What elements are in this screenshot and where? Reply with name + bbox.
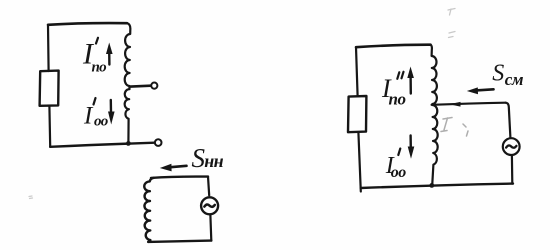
- svg-text:оо: оо: [94, 114, 108, 130]
- wire bottom circuit 2: [148, 241, 211, 242]
- inductor winding circuit 1: [125, 23, 131, 143]
- smudge mark top: [448, 9, 455, 38]
- label I'oo circuit 3: [385, 149, 406, 181]
- wire top edge circuit 3: [356, 45, 431, 48]
- wire right upper circuit 2: [208, 177, 209, 196]
- arrowhead on tap wire circuit 3: [449, 102, 460, 107]
- junction dot circuit 1 bottom: [126, 141, 131, 146]
- label I"po circuit 3: [381, 72, 405, 109]
- source circle circuit 2: [201, 197, 218, 214]
- wire left upper circuit 3: [356, 47, 358, 96]
- inductor winding circuit 3: [431, 45, 438, 186]
- resistor circuit 1: [40, 71, 59, 106]
- label Snn circuit 2: [192, 143, 224, 173]
- terminal circle bottom circuit 1: [155, 139, 162, 146]
- label I'oo circuit 1: [83, 98, 108, 130]
- svg-text:по: по: [92, 60, 107, 76]
- wire bottom circuit 1: [50, 143, 154, 147]
- svg-text:по: по: [389, 89, 406, 108]
- erased label Ig circuit 3: [441, 118, 468, 137]
- arrow Scm circuit 3: [467, 87, 494, 94]
- arrow down I'oo circuit 1: [108, 100, 115, 125]
- svg-text:нн: нн: [204, 151, 223, 171]
- arrow up I'no circuit 1: [106, 43, 113, 65]
- arrow Snn circuit 2: [160, 164, 187, 172]
- source circle circuit 3: [503, 138, 520, 155]
- svg-text:оо: оо: [391, 164, 406, 181]
- wire left upper circuit 1: [47, 25, 50, 71]
- label Scm circuit 3: [492, 60, 524, 89]
- label I'no circuit 1: [82, 38, 106, 76]
- terminal circle tap circuit 1: [151, 83, 157, 89]
- smudge mark left: [29, 196, 33, 199]
- inductor winding circuit 2: [144, 178, 154, 242]
- wire right lower circuit 2: [209, 215, 212, 240]
- wire top edge circuit 1: [48, 23, 127, 25]
- arrow up I"po circuit 3: [407, 67, 414, 94]
- wire right upper circuit 3: [506, 103, 511, 138]
- wire tap circuit 1: [131, 84, 151, 88]
- svg-text:S: S: [492, 60, 504, 86]
- wire tap circuit 3: [432, 103, 506, 105]
- junction dot circuit 3 bottom: [429, 183, 434, 188]
- arrow down I'oo circuit 3: [408, 136, 415, 159]
- resistor circuit 3: [348, 96, 366, 132]
- wire right lower circuit 3: [511, 156, 514, 184]
- svg-text:см: см: [505, 70, 524, 89]
- wire bottom circuit 3: [361, 184, 513, 188]
- wire left lower circuit 3: [358, 132, 360, 191]
- wire left lower circuit 1: [48, 106, 51, 147]
- wire top circuit 2: [151, 177, 208, 178]
- svg-text:I: I: [83, 102, 94, 129]
